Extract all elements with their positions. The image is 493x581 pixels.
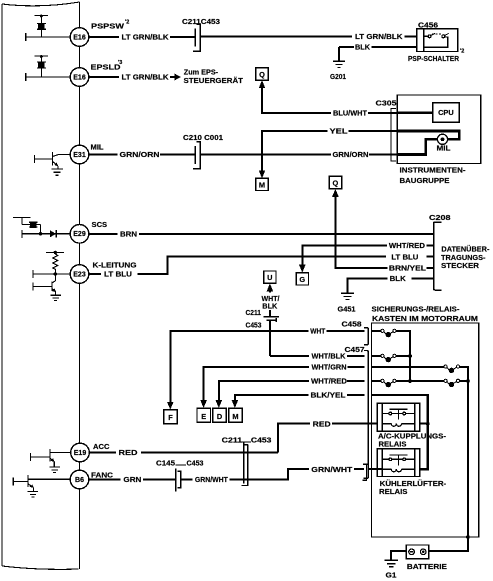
svg-text:RED: RED: [313, 419, 332, 428]
svg-text:RELAIS: RELAIS: [379, 487, 408, 496]
wire LT GRN/BLK from E16 PSPSW: [89, 36, 195, 38]
wire WHT/GRN inside box to right fuse: [372, 367, 468, 381]
svg-text:RED: RED: [119, 448, 139, 457]
svg-text:E16: E16: [73, 74, 86, 81]
ground at K-LEITUNG transistor: [50, 295, 61, 300]
pin label EPSLD with footnote 3: [91, 60, 123, 72]
svg-text:BLU/WHT: BLU/WHT: [333, 109, 367, 118]
svg-text:E16: E16: [73, 34, 86, 41]
wire GRN/WHT to riser: [181, 469, 309, 479]
svg-text:C457: C457: [345, 345, 365, 354]
pin label PSPSW with footnote 2: [91, 20, 129, 31]
svg-text:STECKER: STECKER: [441, 261, 480, 270]
svg-text:M: M: [259, 180, 265, 189]
connector terminal E29: [70, 225, 89, 244]
svg-text:MIL: MIL: [91, 143, 104, 152]
svg-text:STEUERGERÄT: STEUERGERÄT: [184, 76, 244, 85]
pin label ACC: [93, 442, 110, 451]
wire WHT row with branch down to F box: [167, 331, 365, 410]
inline connector C211/C453 (bottom) across RED and GRN/WHT wires: [242, 442, 248, 486]
svg-text:WHT/BLK: WHT/BLK: [312, 352, 346, 361]
svg-text:M: M: [232, 412, 238, 421]
internal wiring of instrument cluster: [397, 113, 459, 155]
wire RED into A/C relay coil: [278, 424, 428, 453]
BATTERIE box: [406, 545, 429, 559]
svg-text:G: G: [299, 275, 305, 284]
FANC driver transistor: [13, 475, 70, 492]
destination box M with arrow down: [256, 170, 268, 190]
inline connector C211/C453 on PSPSW wire: [193, 24, 200, 51]
battery feed wire from fuse box to BATTERIE: [429, 537, 468, 551]
svg-text:G201: G201: [330, 72, 347, 81]
svg-text:GRN/ORN: GRN/ORN: [120, 150, 160, 159]
connector terminal E16: [70, 28, 89, 47]
svg-text:U: U: [267, 273, 272, 282]
svg-text:LT GRN/BLK: LT GRN/BLK: [122, 73, 170, 82]
svg-text:C208: C208: [429, 213, 451, 222]
ground at ACC transistor: [49, 467, 59, 473]
wire BLK/YEL inside box down right side of relays: [372, 395, 428, 469]
svg-text:BLK: BLK: [390, 274, 407, 283]
fuse on WHT/RED row (right): [460, 380, 468, 382]
destination box Q (to page Q): [256, 68, 268, 80]
destination box G: [296, 273, 308, 285]
ECU internal bus wire (vertical through connector circles): [79, 2, 81, 569]
KUEHLERLUEFTER-RELAIS: [377, 449, 419, 477]
svg-text:C458: C458: [342, 319, 362, 328]
svg-text:PSP-SCHALTER: PSP-SCHALTER: [408, 54, 459, 63]
svg-text:G1: G1: [386, 570, 398, 579]
inline connector C211/C453 (mid) on riser: [269, 310, 271, 317]
svg-text:K-LEITUNG: K-LEITUNG: [93, 261, 137, 270]
svg-text:EPSLD: EPSLD: [91, 63, 122, 72]
A/C-KUPPLUNGS-RELAIS: [377, 403, 419, 431]
svg-text:D: D: [217, 412, 223, 421]
svg-text:WHT: WHT: [310, 327, 325, 336]
svg-text:GRN/WHT: GRN/WHT: [195, 475, 228, 484]
svg-text:KASTEN IM MOTORRAUM: KASTEN IM MOTORRAUM: [372, 314, 478, 323]
connector terminal E16: [70, 68, 89, 87]
svg-text:GRN: GRN: [123, 475, 141, 484]
svg-text:Q: Q: [259, 70, 265, 79]
fuse on WHT row: [372, 331, 411, 381]
svg-text:Q: Q: [333, 179, 339, 188]
fuse on WHT/GRN row (right): [444, 365, 460, 373]
wire LT BLU from E23: [89, 257, 433, 274]
wire WHT/RED with arrow down to G box: [299, 246, 433, 273]
svg-text:GRN/WHT: GRN/WHT: [311, 465, 352, 474]
svg-text:E: E: [201, 412, 206, 421]
svg-text:BLK: BLK: [262, 302, 277, 311]
svg-text:BLK: BLK: [355, 43, 370, 52]
svg-text:B6: B6: [75, 477, 84, 484]
svg-text:WHT/RED: WHT/RED: [389, 241, 426, 250]
svg-text:BLK/YEL: BLK/YEL: [311, 391, 346, 400]
svg-text:LT GRN/BLK: LT GRN/BLK: [355, 32, 403, 41]
svg-text:CPU: CPU: [438, 108, 454, 117]
wire BLK of C208 down to ground G451: [347, 278, 432, 292]
svg-text:BRN: BRN: [120, 229, 137, 238]
wire label WHT/BLK (riser to U box): [262, 294, 281, 311]
wire GRN/ORN to instrument cluster: [200, 154, 397, 156]
destination box E: [197, 408, 211, 422]
destination box M (bottom): [229, 408, 243, 422]
ground G451: [341, 293, 354, 299]
fuse on WHT/RED row: [372, 380, 445, 382]
svg-text:C210 C001: C210 C001: [183, 133, 224, 142]
inline connector C210/C001 on GRN/ORN wire: [193, 142, 200, 169]
wire WHT/BLK row from riser: [270, 355, 365, 357]
svg-text:E19: E19: [74, 450, 87, 457]
wire GRN from B6: [89, 479, 175, 481]
connector terminal E23: [70, 265, 89, 284]
svg-text:E29: E29: [73, 231, 86, 238]
junction of WHT and WHT/BLK fuse outputs: [408, 354, 412, 358]
riser continues down to WHT/BLK wire: [269, 320, 271, 356]
PSP-SCHALTER switch box: [417, 29, 458, 52]
wire BRN/YEL stub into C208: [426, 267, 433, 269]
svg-text:BAUGRUPPE: BAUGRUPPE: [400, 176, 450, 185]
svg-text:WHT/GRN: WHT/GRN: [312, 362, 347, 371]
ground at MIL transistor emitter: [52, 169, 64, 175]
wire WHT/GRN row with branch down to E box: [200, 367, 364, 408]
destination box Q (second) with arrow up, wire to BRN/YEL: [329, 176, 341, 188]
svg-text:F: F: [168, 413, 173, 422]
wire RED from E19: [89, 452, 278, 454]
connector terminal B6: [70, 470, 89, 489]
svg-text:SCS: SCS: [92, 220, 108, 229]
pull-up resistor at K-LEITUNG pin: [46, 251, 64, 274]
svg-text:E23: E23: [73, 271, 86, 278]
svg-text:FANC: FANC: [91, 470, 114, 479]
wire LT GRN/BLK to PSP switch: [200, 35, 417, 37]
diode in series with SCS pin: [50, 230, 57, 237]
INSTRUMENTEN-BAUGRUPPE box: [397, 95, 481, 164]
svg-text:E31: E31: [73, 152, 86, 159]
wire from battery negative to ground G1: [391, 551, 406, 560]
connector C458 bracket: [364, 328, 368, 345]
ECU control-unit boundary wall: [2, 2, 80, 569]
wire BLK/YEL row with branch down to M box: [232, 395, 365, 408]
connector terminal E19: [71, 443, 90, 462]
svg-text:SICHERUNGS-/RELAIS-: SICHERUNGS-/RELAIS-: [372, 304, 460, 313]
wire BLU/WHT with arrow up to Q box: [259, 80, 398, 113]
svg-text:YEL: YEL: [330, 127, 348, 136]
ground G1: [385, 560, 398, 566]
protection network at SCS pin: [13, 217, 70, 238]
destination box U with arrow up: [264, 271, 276, 283]
connector C208 bracket: [431, 222, 442, 290]
svg-text:'2: '2: [125, 20, 129, 26]
label DATENUEBERTRAGUNGS-STECKER: [441, 244, 490, 270]
connector terminal E31: [70, 145, 89, 164]
svg-text:INSTRUMENTEN-: INSTRUMENTEN-: [400, 166, 466, 175]
svg-text:C305: C305: [376, 98, 398, 107]
wire LT GRN/BLK from E16 EPSLD to EPS control unit: [89, 76, 175, 78]
connector C305 bracket: [391, 109, 396, 162]
svg-text:PSPSW: PSPSW: [91, 22, 125, 31]
svg-text:'2: '2: [460, 49, 464, 55]
CPU box: [433, 103, 459, 123]
ground at FANC transistor: [28, 492, 39, 498]
fuse on WHT/BLK row: [372, 355, 411, 357]
pin label MIL: [91, 143, 104, 152]
destination box F: [164, 410, 178, 424]
svg-text:MIL: MIL: [437, 144, 451, 153]
svg-text:WHT/RED: WHT/RED: [311, 377, 348, 386]
svg-text:C211: C211: [222, 435, 243, 444]
off-page arrow Zum EPS-STEUERGERAET: [175, 74, 182, 81]
svg-text:C453: C453: [187, 458, 204, 467]
svg-text:'3: '3: [118, 60, 122, 66]
svg-text:G451: G451: [338, 305, 357, 314]
connector C457 bracket: [364, 351, 369, 479]
ground G201: [333, 61, 345, 67]
svg-text:BRN/YEL: BRN/YEL: [389, 264, 426, 273]
connector C456 on PSP switch: [418, 21, 438, 30]
svg-text:C453: C453: [251, 435, 272, 444]
svg-text:RELAIS: RELAIS: [379, 440, 407, 449]
MIL indicator lamp: [437, 134, 447, 144]
junction and feed wire down to battery: [466, 379, 470, 383]
svg-text:BATTERIE: BATTERIE: [407, 562, 447, 571]
wire BLK from PSP switch to ground: [339, 47, 417, 61]
wire YEL from instrument cluster: [262, 131, 397, 171]
svg-text:C453: C453: [246, 321, 262, 330]
svg-text:LT BLU: LT BLU: [104, 270, 133, 279]
MIL driver transistor Q: [35, 152, 71, 169]
svg-text:GRN/ORN: GRN/ORN: [333, 150, 369, 159]
wire WHT/RED row with branch down to D box: [216, 381, 365, 408]
SICHERUNGS-/RELAIS-KASTEN box outline: [372, 323, 479, 537]
wire GRN/ORN from E31: [89, 154, 195, 156]
wire BRN from E29 to C208: [89, 233, 433, 235]
pin label K-LEITUNG: [93, 261, 137, 270]
destination box D: [213, 408, 227, 422]
svg-text:C211C453: C211C453: [182, 17, 220, 26]
ACC input transistor: [31, 449, 71, 467]
K-LEITUNG driver transistor: [33, 270, 70, 295]
pin label SCS: [92, 220, 108, 229]
inline connector C145/C453 on GRN wire: [176, 468, 181, 491]
pin label FANC: [91, 470, 114, 479]
wire GRN/WHT into fuse box: [354, 468, 382, 470]
zener diode clamp at PSPSW pin: [26, 15, 70, 42]
svg-text:C211: C211: [246, 308, 262, 317]
svg-text:LT BLU: LT BLU: [391, 252, 419, 261]
svg-text:LT GRN/BLK: LT GRN/BLK: [122, 33, 170, 42]
connector C459 bracket at box wall: [362, 464, 366, 480]
svg-text:ACC: ACC: [93, 442, 110, 451]
zener diode clamp at EPSLD pin: [26, 55, 70, 81]
svg-text:C145: C145: [156, 458, 176, 467]
